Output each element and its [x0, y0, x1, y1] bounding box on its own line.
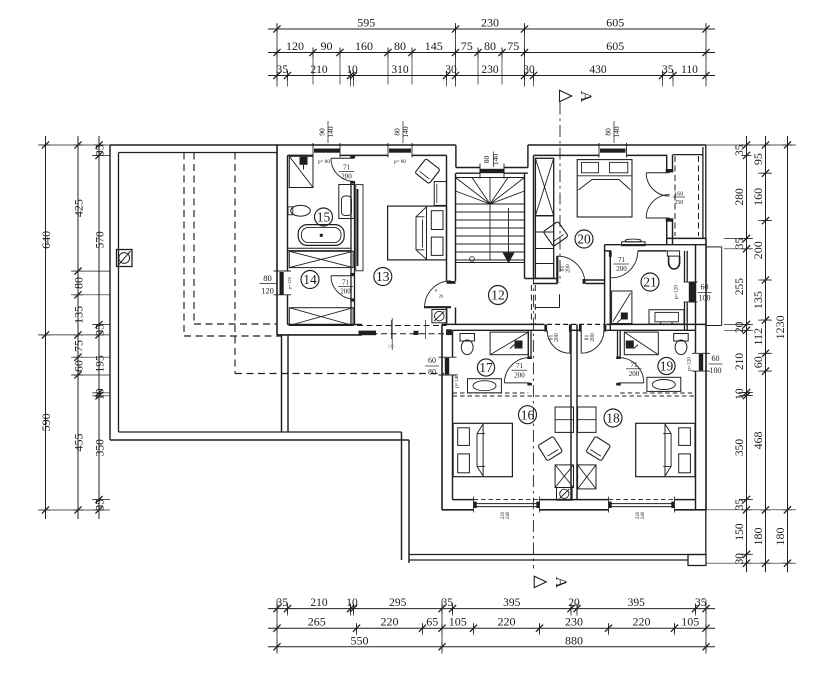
sliding door unit18 — [609, 499, 675, 501]
bath 19 west wall — [617, 330, 619, 356]
svg-text:p=140: p=140 — [454, 374, 460, 388]
svg-text:80: 80 — [428, 368, 436, 377]
svg-text:112: 112 — [751, 328, 765, 346]
shower room 21 — [612, 291, 632, 324]
corridor wall right of room20 door — [586, 279, 605, 281]
shower head black room 21 — [621, 313, 628, 320]
unit block left wall — [441, 324, 443, 509]
svg-text:17: 17 — [479, 360, 493, 375]
svg-text:12: 12 — [491, 288, 505, 303]
svg-text:10: 10 — [734, 388, 746, 400]
dimension bottom row 1 (35 210 10 295 35 395 20 395 35) — [268, 608, 715, 610]
svg-text:75: 75 — [461, 39, 473, 53]
svg-text:200: 200 — [554, 333, 560, 342]
dimension top extension lines — [276, 23, 278, 87]
svg-text:590: 590 — [39, 413, 53, 431]
svg-text:35: 35 — [95, 499, 107, 511]
svg-text:430: 430 — [589, 64, 607, 76]
dimension top row 1 (595 230 605) — [268, 28, 715, 30]
svg-text:80: 80 — [394, 39, 406, 53]
window 90/140 bath 15 in top wall — [314, 149, 340, 153]
dimension right extension lines — [706, 144, 796, 146]
stair landing edge — [456, 259, 525, 261]
svg-text:35: 35 — [441, 597, 453, 609]
svg-text:180: 180 — [751, 528, 765, 546]
svg-text:265: 265 — [308, 615, 326, 629]
bed room 18 pillows — [679, 428, 691, 446]
svg-text:468: 468 — [751, 432, 765, 450]
svg-text:180: 180 — [773, 528, 787, 546]
armchair room 20 (rotated) — [543, 221, 568, 246]
dimension left outer column (640 590) — [45, 136, 47, 519]
window 80/140 room 20 in top wall — [600, 149, 626, 153]
door room 20 swing arc — [558, 256, 585, 283]
partition wall bath/room13 (x~351-354.5) — [350, 155, 352, 157]
door bath 15 jambs — [350, 156, 355, 158]
lower terrace edge lines — [409, 554, 706, 556]
door room 20 leaf — [556, 256, 558, 283]
svg-text:10: 10 — [346, 64, 358, 76]
room label 21 circle — [641, 273, 659, 291]
toilet room 21 — [667, 251, 679, 256]
svg-text:295: 295 — [389, 597, 407, 609]
svg-text:14: 14 — [303, 272, 317, 287]
svg-text:310: 310 — [391, 64, 409, 76]
svg-text:15: 15 — [317, 210, 331, 225]
toilet bath 19 — [674, 334, 689, 342]
svg-text:80: 80 — [263, 273, 272, 283]
svg-text:160: 160 — [355, 39, 373, 53]
svg-text:65: 65 — [426, 615, 438, 629]
stair left wall — [446, 155, 448, 281]
lower court wall (x~401-409) — [401, 432, 403, 560]
svg-text:35: 35 — [695, 597, 707, 609]
sink bath 19 — [647, 377, 681, 391]
svg-text:570: 570 — [95, 231, 107, 249]
door room 21 jamb — [609, 252, 612, 257]
right side bump-out rectangle — [706, 246, 722, 248]
svg-text:395: 395 — [628, 597, 646, 609]
svg-text:120: 120 — [286, 39, 304, 53]
svg-text:71: 71 — [631, 361, 639, 369]
svg-text:80: 80 — [72, 277, 86, 289]
bed room 16 blanket fold — [477, 424, 483, 476]
bath 17 east wall — [527, 330, 529, 356]
svg-text:140: 140 — [326, 126, 335, 138]
section marker A top: triangle — [560, 90, 572, 101]
terrace outer wall top — [110, 144, 277, 146]
svg-text:60: 60 — [712, 354, 720, 363]
shower head black bath 19 — [626, 341, 634, 349]
room label 13 circle — [374, 268, 392, 286]
corridor dashed wall (x~531-535) — [530, 285, 532, 324]
svg-text:71: 71 — [516, 362, 524, 370]
svg-text:135: 135 — [72, 306, 86, 324]
svg-text:605: 605 — [606, 39, 624, 53]
svg-text:100: 100 — [710, 366, 722, 375]
svg-text:80: 80 — [484, 39, 496, 53]
svg-text:p=120: p=120 — [687, 357, 693, 371]
dimension right column C (1230 180) — [787, 136, 789, 572]
svg-text:71: 71 — [343, 164, 351, 172]
roof overhang dashed line 3 horizontal — [235, 373, 444, 375]
bed room 13 blanket fold — [416, 207, 427, 259]
room 21 right partition wall — [684, 251, 686, 282]
wardrobe X room 18 — [578, 465, 596, 489]
armchair room 16 (rotated) — [538, 436, 563, 461]
dimension bottom extension lines — [276, 600, 278, 654]
door bath 14 swing arc — [331, 276, 354, 299]
svg-text:140: 140 — [612, 126, 621, 138]
door bath 14 leaf — [331, 275, 354, 277]
door bath 14 jambs — [350, 273, 355, 276]
wall under balcony (room20/21 band) — [667, 237, 706, 239]
svg-text:75: 75 — [507, 39, 519, 53]
svg-text:195: 195 — [95, 355, 107, 373]
terrace inner wall top — [119, 152, 278, 154]
shower bath 17 — [490, 332, 528, 355]
stair top line — [456, 177, 525, 179]
svg-text:250: 250 — [674, 200, 683, 206]
svg-text:220: 220 — [498, 615, 516, 629]
svg-text:26: 26 — [439, 294, 444, 299]
door room 13 leaf — [424, 306, 451, 308]
wall between terrace and lower court (x~282-288) — [281, 335, 283, 432]
svg-text:35: 35 — [734, 499, 746, 511]
partition dashed unit16 — [453, 392, 529, 394]
wall end jamb black — [359, 331, 377, 336]
dimension left inner column (35 570 35 195 10 350 35) — [98, 136, 100, 519]
svg-text:140: 140 — [401, 126, 410, 138]
svg-text:80: 80 — [482, 156, 491, 164]
svg-text:p=120: p=120 — [674, 285, 680, 299]
terrace outer wall bottom — [110, 439, 409, 441]
cabinet room 13 top right — [434, 182, 446, 206]
bottom wall segments — [442, 509, 474, 511]
window 60/100 room 19 glazing — [699, 354, 703, 371]
building corner to lower terrace connector — [705, 510, 707, 555]
svg-text:135: 135 — [751, 291, 765, 309]
svg-text:200: 200 — [751, 241, 765, 259]
svg-text:455: 455 — [72, 434, 86, 452]
svg-text:210: 210 — [310, 597, 328, 609]
dimension right column A (35 280 35 255 20 210 10 350 35 150 30) — [746, 136, 748, 572]
door room 13 swing arc — [425, 281, 451, 307]
building left wall inner — [287, 155, 289, 271]
wardrobe strip bottom of 14 with X — [289, 308, 353, 326]
dashed wall below room 13 (lower line) — [362, 333, 447, 335]
room label 17 circle — [477, 359, 494, 376]
svg-text:145: 145 — [425, 39, 443, 53]
tick dots on dashed wall — [414, 331, 419, 335]
drain symbol corridor — [432, 310, 447, 323]
units top wall east segment — [606, 323, 706, 325]
svg-text:18: 18 — [606, 411, 620, 426]
stair down arrow stem — [508, 208, 510, 253]
stair left wall door jamb — [447, 281, 456, 284]
room label 20 circle — [575, 230, 593, 248]
svg-text:200: 200 — [590, 333, 596, 342]
svg-text:p=120: p=120 — [287, 276, 292, 288]
svg-text:p= 80: p= 80 — [394, 159, 406, 165]
svg-text:595: 595 — [357, 16, 375, 30]
units top wall west segment — [442, 323, 544, 325]
svg-text:140: 140 — [491, 154, 500, 166]
svg-text:395: 395 — [503, 597, 521, 609]
window 80/140 room 13 in top wall — [389, 149, 411, 153]
bed room 16 pillows — [458, 428, 470, 446]
svg-text:120: 120 — [261, 286, 274, 296]
svg-text:280: 280 — [734, 188, 746, 206]
bed room 18 blanket fold — [665, 424, 671, 476]
window 60/100 room 21 glazing — [689, 282, 695, 302]
door bath 15 leaf — [331, 157, 354, 159]
unit16 entry door jambs — [544, 324, 547, 331]
svg-text:200: 200 — [340, 288, 351, 296]
roof overhang dashed line 1 horizontal — [194, 323, 277, 325]
sink room 21 — [649, 310, 684, 324]
stair right wall — [524, 173, 526, 278]
dimension bottom row 3 (550 880) — [268, 646, 715, 648]
svg-text:35: 35 — [734, 144, 746, 156]
unit16 entry door arc — [547, 331, 570, 354]
svg-text:230: 230 — [481, 16, 499, 30]
balcony dashed lines — [674, 156, 676, 236]
svg-text:35: 35 — [95, 324, 107, 336]
stair center line — [489, 204, 491, 260]
bath 17 door jambs — [527, 356, 532, 359]
drain symbol room 16 — [557, 488, 573, 501]
svg-text:640: 640 — [39, 231, 53, 249]
corner jamb black at stair wall base — [446, 329, 452, 335]
svg-text:71: 71 — [342, 278, 350, 286]
wardrobe X room 16 — [555, 465, 573, 488]
partition wall bath15/bath14 — [288, 247, 352, 249]
room label 12 circle — [489, 286, 508, 305]
svg-text:230: 230 — [481, 64, 499, 76]
svg-text:20: 20 — [568, 597, 580, 609]
room 21 top wall — [605, 250, 612, 252]
bed room 18 — [636, 423, 695, 476]
stair newel circle — [470, 257, 475, 262]
french door leaf lower — [646, 217, 669, 219]
roof overhang dashed line 1 vertical — [193, 153, 195, 325]
stair down arrow head — [503, 253, 514, 263]
room label 18 circle — [604, 409, 622, 427]
door room 21 swing arc — [611, 251, 638, 278]
svg-text:240: 240 — [388, 344, 396, 349]
svg-text:425: 425 — [72, 199, 86, 217]
shower head black bath 17 — [515, 341, 523, 349]
svg-text:550: 550 — [351, 633, 369, 647]
svg-text:220: 220 — [381, 615, 399, 629]
shelf bar room 20 — [622, 242, 645, 246]
svg-text:95: 95 — [751, 153, 765, 165]
cabinet column room 16 — [555, 407, 573, 432]
bath 17 door leaf — [504, 382, 529, 384]
section marker A bottom: triangle — [534, 576, 546, 587]
door bath 15 swing arc — [331, 158, 354, 181]
svg-text:105: 105 — [449, 615, 467, 629]
svg-text:19: 19 — [660, 359, 674, 374]
svg-text:605: 605 — [606, 16, 624, 30]
roof overhang dashed line 2 vertical — [183, 153, 185, 337]
building top wall outer line — [277, 144, 456, 146]
unit16 entry door leaf — [569, 331, 571, 354]
roof overhang dashed line 3 vertical — [234, 153, 236, 374]
room 21 left wall — [604, 245, 606, 331]
building left wall outer — [276, 145, 278, 335]
bath 17 door arc — [504, 358, 529, 383]
door room 20 jamb — [583, 279, 586, 284]
svg-text:200: 200 — [566, 264, 572, 273]
bathtub bath 15 — [298, 225, 344, 246]
svg-text:35: 35 — [95, 144, 107, 156]
dimension top row 3 (35 210 10 310 30 230 30 430 35 110) — [268, 75, 715, 77]
under-stair niche L-line — [559, 294, 561, 307]
svg-text:35: 35 — [276, 597, 288, 609]
svg-text:10: 10 — [95, 388, 107, 400]
french door wall segments room 20 east — [666, 155, 668, 169]
bath 19 door leaf — [619, 382, 644, 384]
corridor wall left of room20 door — [525, 278, 558, 280]
svg-text:20: 20 — [577, 232, 591, 247]
svg-text:35: 35 — [734, 238, 746, 250]
dimension left extension lines — [38, 144, 110, 146]
dimension bottom row 2 (265 220 65 105 220 230 220 105) — [268, 627, 715, 629]
roof overhang dashed line 2 horizontal — [184, 335, 282, 337]
bed room 13 pillows — [431, 211, 443, 230]
ticks on dashed wall — [390, 320, 392, 339]
building right wall inner — [695, 245, 697, 354]
svg-text:100: 100 — [699, 294, 711, 303]
bath 19 door arc — [619, 358, 644, 383]
svg-text:350: 350 — [95, 439, 107, 457]
svg-text:60: 60 — [428, 356, 436, 365]
svg-text:200: 200 — [341, 173, 352, 181]
svg-text:105: 105 — [681, 615, 699, 629]
bed room 16 — [453, 423, 512, 476]
balcony right wall — [702, 147, 704, 238]
toilet bath 17 — [460, 334, 475, 342]
stair winder radial lines — [456, 178, 491, 205]
svg-text:A: A — [577, 91, 594, 103]
shower bath 19 — [624, 332, 658, 355]
french door leaf upper — [646, 172, 669, 174]
svg-text:60: 60 — [701, 283, 709, 292]
svg-text:230: 230 — [565, 615, 583, 629]
building top wall inner line segments — [288, 154, 314, 156]
section line upper (dash-dot) — [559, 103, 561, 284]
window 80/120 room 14 in left wall — [280, 272, 284, 295]
svg-text:20: 20 — [734, 321, 746, 333]
svg-text:110: 110 — [681, 64, 698, 76]
svg-text:71: 71 — [618, 256, 626, 264]
svg-text:200: 200 — [629, 370, 640, 378]
building right wall outer — [705, 238, 707, 509]
unit18 entry door arc — [581, 331, 604, 354]
room label 14 circle — [301, 271, 319, 289]
terrace inner wall left — [118, 153, 120, 433]
room label 15 circle — [315, 208, 333, 226]
cabinet column room 18 — [578, 407, 596, 432]
svg-text:240: 240 — [641, 511, 646, 519]
toilet bath 15 — [339, 185, 354, 219]
svg-text:21: 21 — [643, 275, 657, 290]
closet room 20 with X — [535, 158, 553, 215]
svg-text:35: 35 — [662, 64, 674, 76]
svg-text:200: 200 — [514, 371, 525, 379]
bath block bottom wall — [277, 334, 362, 336]
armchair room 13 (rotated) — [415, 159, 440, 184]
dimension top row 2 (120 90 160 80 145 75 80 75 605) — [268, 52, 715, 54]
unit18 entry door leaf — [580, 331, 582, 354]
svg-text:60: 60 — [751, 356, 765, 368]
bed room 20 fold — [579, 180, 631, 191]
armchair room 18 (rotated) — [586, 436, 611, 461]
closet strip room 13 — [356, 185, 363, 271]
svg-text:210: 210 — [734, 353, 746, 371]
section line lower (dash-dot) — [532, 250, 534, 569]
terrace drain symbol (square with circle and slash) — [117, 250, 133, 267]
svg-text:255: 255 — [734, 278, 746, 296]
room label 19 circle — [658, 357, 675, 374]
sink bath 17 — [468, 379, 502, 393]
dimension right column B (95 160 200 135 112 60 468 180) — [765, 136, 767, 572]
svg-text:75: 75 — [72, 340, 86, 352]
dashed wall below room 13 (upper line) — [357, 325, 447, 327]
sliding door unit16 — [474, 499, 540, 501]
svg-text:10: 10 — [346, 597, 358, 609]
tiny annotation line below room 13 — [391, 318, 393, 350]
svg-text:240: 240 — [506, 511, 511, 519]
bed room 20 pillows — [582, 162, 599, 172]
svg-text:880: 880 — [565, 633, 583, 647]
units top wall middle segment — [547, 323, 604, 325]
dimension left middle column (425 80 135 75 60 455) — [77, 136, 79, 519]
svg-text:60: 60 — [72, 360, 86, 372]
svg-text:90: 90 — [321, 39, 333, 53]
terrace outer wall left — [109, 145, 111, 440]
french door jambs black — [666, 169, 674, 172]
stair treads — [456, 203, 525, 205]
window 60/80 unit16 glazing — [445, 358, 449, 375]
svg-text:160: 160 — [674, 191, 683, 197]
wardrobe strip between 15 and 14 with X — [289, 251, 353, 267]
bed room 13 — [388, 206, 447, 260]
svg-text:200: 200 — [616, 265, 627, 273]
svg-text:p= 80: p= 80 — [318, 159, 330, 165]
partition dashed unit18 — [620, 392, 695, 394]
svg-text:160: 160 — [751, 188, 765, 206]
stair window bay outer — [455, 145, 457, 168]
svg-text:350: 350 — [734, 439, 746, 457]
unit18 entry door jambs — [579, 324, 582, 331]
bath 19 door jambs — [616, 356, 621, 359]
svg-text:16: 16 — [521, 407, 535, 422]
shelves room 20 — [535, 216, 553, 279]
svg-text:13: 13 — [376, 269, 390, 284]
svg-text:220: 220 — [633, 615, 651, 629]
lower terrace right step box — [688, 555, 706, 566]
sink bath 15 — [291, 205, 311, 216]
bed room 20 — [577, 160, 632, 217]
svg-text:A: A — [552, 577, 569, 589]
room label 16 circle — [519, 406, 537, 424]
svg-text:35: 35 — [276, 64, 288, 76]
stair window 80/140 glazing — [480, 169, 505, 173]
party wall between units — [570, 324, 572, 499]
